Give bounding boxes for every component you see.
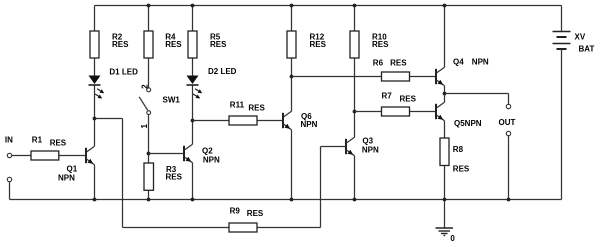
svg-text:SW1: SW1 bbox=[163, 95, 181, 104]
node B junction dot (148.5,153.5) bbox=[147, 152, 151, 156]
node F junction dot (444.5,93.5) bbox=[443, 92, 447, 96]
label R3 RES bbox=[166, 165, 183, 182]
svg-text:RES: RES bbox=[248, 103, 265, 112]
svg-text:BAT: BAT bbox=[579, 44, 595, 53]
svg-text:R11: R11 bbox=[230, 101, 245, 110]
transistor Q3 bbox=[346, 137, 355, 155]
resistor R2 bbox=[90, 31, 99, 58]
svg-text:NPN: NPN bbox=[58, 173, 75, 182]
transistor Q5 bbox=[436, 102, 445, 120]
label R8 RES bbox=[453, 145, 470, 173]
wire R7 row bbox=[355, 111, 437, 113]
transistor Q4 bbox=[436, 67, 445, 85]
transistor Q2 bbox=[184, 144, 193, 162]
bottom rail junction dots bbox=[93, 198, 511, 202]
svg-text:R8: R8 bbox=[453, 145, 464, 154]
svg-text:RES: RES bbox=[166, 172, 183, 181]
svg-text:Q3: Q3 bbox=[362, 137, 373, 146]
resistor R7 bbox=[382, 107, 410, 116]
transistor Q1 bbox=[86, 146, 95, 164]
terminal OUT+ bbox=[506, 104, 510, 108]
resistor R6 bbox=[382, 72, 410, 81]
wire top rail bbox=[95, 5, 562, 7]
svg-text:Q5NPN: Q5NPN bbox=[454, 119, 482, 128]
top rail junction dots bbox=[147, 4, 447, 8]
node D junction dot (291.5,76.5) bbox=[290, 75, 294, 79]
label Q1 NPN bbox=[58, 165, 78, 183]
resistor R11 bbox=[229, 116, 257, 125]
terminal IN- bbox=[7, 177, 11, 181]
svg-text:OUT: OUT bbox=[499, 118, 516, 127]
svg-text:NPN: NPN bbox=[362, 145, 379, 154]
svg-text:RES: RES bbox=[400, 94, 417, 103]
wire R6 row bbox=[292, 76, 437, 78]
resistor R8 bbox=[440, 138, 449, 166]
LED D2 bbox=[187, 76, 203, 99]
svg-text:RES: RES bbox=[372, 40, 389, 49]
svg-text:R1: R1 bbox=[32, 135, 43, 144]
switch SW1 bbox=[139, 88, 151, 115]
label Q2 NPN bbox=[202, 146, 220, 164]
svg-text:R7: R7 bbox=[382, 91, 393, 100]
svg-text:Q2: Q2 bbox=[202, 146, 213, 155]
svg-text:R6: R6 bbox=[373, 58, 384, 67]
node A junction dot (94.5,118.5) bbox=[93, 117, 97, 121]
wire column B (R4/SW1/R3) bbox=[148, 6, 150, 200]
resistor R4 bbox=[144, 31, 153, 58]
label Q6 NPN bbox=[301, 112, 318, 129]
svg-text:RES: RES bbox=[247, 209, 264, 218]
resistor R1 bbox=[31, 151, 59, 160]
svg-text:D2 LED: D2 LED bbox=[208, 67, 237, 76]
svg-text:RES: RES bbox=[310, 40, 327, 49]
svg-text:RES: RES bbox=[112, 40, 129, 49]
svg-text:Q1: Q1 bbox=[67, 165, 78, 174]
svg-text:D1 LED: D1 LED bbox=[109, 67, 138, 76]
resistor R12 bbox=[287, 31, 296, 58]
wire IN to R1 bbox=[12, 155, 31, 157]
label R6 RES bbox=[373, 58, 407, 67]
ground bbox=[436, 200, 454, 236]
wire OUT branch bbox=[445, 94, 509, 200]
resistor R9 bbox=[229, 223, 257, 232]
wire bottom rail bbox=[10, 199, 562, 201]
svg-text:Q4: Q4 bbox=[453, 58, 464, 67]
svg-text:0: 0 bbox=[450, 234, 455, 243]
svg-text:NPN: NPN bbox=[301, 120, 318, 129]
resistor R5 bbox=[188, 31, 197, 58]
battery XV BAT bbox=[553, 6, 571, 200]
wire Q2 base bbox=[149, 153, 185, 155]
wire column A (R2/D1/Q1) bbox=[94, 6, 96, 200]
terminal IN+ bbox=[7, 153, 11, 157]
wire column C (R5/D2/Q2) bbox=[192, 6, 194, 200]
svg-text:1: 1 bbox=[140, 124, 149, 129]
node C junction dot (192.5,120.5) bbox=[191, 119, 195, 123]
svg-text:NPN: NPN bbox=[472, 58, 489, 67]
svg-text:RES: RES bbox=[210, 40, 227, 49]
wire IN- down bbox=[9, 182, 11, 200]
node E junction dot (354.5,111.5) bbox=[353, 110, 357, 114]
resistor R10 bbox=[350, 31, 359, 58]
wire R11 row bbox=[193, 120, 284, 122]
svg-text:NPN: NPN bbox=[203, 156, 220, 165]
wire column D (R12/Q6) bbox=[291, 6, 293, 200]
LED D1 bbox=[89, 76, 105, 99]
label Q3 NPN bbox=[362, 137, 379, 155]
svg-text:IN: IN bbox=[5, 135, 13, 144]
svg-text:RES: RES bbox=[453, 164, 470, 173]
label R11 RES bbox=[230, 101, 266, 113]
wire R9 feedback branch bbox=[95, 119, 347, 228]
svg-text:RES: RES bbox=[50, 138, 67, 147]
svg-text:XV: XV bbox=[575, 32, 586, 41]
label R9 RES bbox=[230, 207, 264, 218]
wire R1 to Q1 base bbox=[59, 155, 87, 157]
svg-text:RES: RES bbox=[165, 40, 182, 49]
wire column E (R10/Q3) bbox=[354, 6, 356, 200]
label R1 RES bbox=[32, 135, 67, 147]
resistor R3 bbox=[144, 163, 154, 190]
label Q4 NPN bbox=[453, 58, 489, 67]
label R7 RES bbox=[382, 91, 417, 103]
svg-text:RES: RES bbox=[390, 58, 407, 67]
transistor Q6 bbox=[283, 111, 292, 129]
svg-text:2: 2 bbox=[141, 84, 150, 89]
terminal OUT- bbox=[506, 131, 510, 135]
svg-text:R9: R9 bbox=[230, 207, 241, 216]
wire column F (Q4/Q5/R8) bbox=[444, 6, 446, 200]
